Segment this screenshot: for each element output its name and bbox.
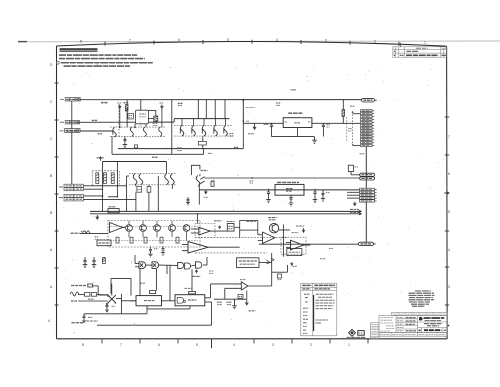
feed arrow small bbox=[291, 262, 294, 265]
note line 3 bbox=[57, 61, 60, 64]
P1 pin number ticks bbox=[372, 111, 374, 146]
zone letters right bbox=[448, 135, 450, 289]
label (INT) IN bbox=[71, 300, 77, 302]
ground arrow P2 bbox=[353, 202, 356, 206]
wire mixer up bbox=[111, 284, 113, 296]
wire J4b bbox=[84, 188, 103, 190]
wire (OUT) long bbox=[97, 324, 212, 326]
transistor Q12 bbox=[165, 174, 175, 185]
P1 pin texts bbox=[362, 111, 371, 146]
IC U6 PLL box bbox=[175, 295, 205, 306]
revision row B text bbox=[394, 54, 395, 56]
label Q9 2N3906 bbox=[230, 133, 234, 135]
wire top rail bbox=[80, 99, 362, 101]
label C34 bbox=[154, 248, 158, 250]
label VR1 LM340T-5 bbox=[288, 112, 303, 114]
crystal module B1 bbox=[227, 224, 234, 232]
dashed amplifier block bbox=[108, 221, 200, 248]
transistor row dashed bus lower bbox=[110, 135, 166, 137]
label +13.6V small bbox=[204, 196, 209, 198]
capacitor C32 with ground bbox=[83, 314, 86, 322]
label +13.6V below bbox=[249, 310, 256, 312]
capacitor C19 with ground bbox=[186, 197, 190, 205]
svg-text:5: 5 bbox=[448, 210, 450, 214]
transistor Q18 FET bbox=[269, 224, 290, 233]
wire loop drops bbox=[240, 230, 258, 238]
resistor R51 above U5 bbox=[150, 291, 156, 294]
wire J4 to bias bbox=[84, 185, 127, 187]
label VR2 LM320T bbox=[277, 181, 299, 183]
svg-text:2: 2 bbox=[374, 39, 376, 43]
gate U4a bbox=[178, 262, 184, 268]
wire R14 bbox=[342, 100, 344, 124]
label C18 bbox=[250, 180, 254, 182]
VR1 bottom wire bbox=[272, 136, 315, 138]
capacitor C31 bbox=[106, 304, 109, 312]
transistor Q9 bbox=[224, 125, 228, 136]
label R41 1K bbox=[226, 301, 232, 303]
svg-text:7: 7 bbox=[448, 135, 450, 139]
ground below C21 bbox=[92, 265, 97, 268]
label C10 .1 bbox=[264, 123, 269, 125]
U6 internal text bbox=[188, 299, 197, 301]
dashed arrow line near P1 bbox=[351, 111, 353, 145]
A3 out wire bbox=[304, 244, 311, 246]
label A6 bbox=[240, 279, 246, 281]
label R50 bbox=[81, 230, 85, 232]
gate U3a bbox=[139, 262, 146, 269]
label C33 220 bbox=[95, 236, 99, 238]
label 7R4 bbox=[123, 102, 128, 104]
wire drops into Q2-Q4 bbox=[127, 100, 156, 128]
label Q18 MPF102 bbox=[268, 217, 277, 219]
label +13.6V bottom bbox=[195, 270, 197, 273]
vertical trunk mid-bottom bbox=[271, 253, 273, 286]
capacitor C6 bbox=[123, 136, 126, 144]
wires U5-U6 bbox=[130, 265, 212, 325]
wire 119.8 drop bbox=[119, 108, 121, 127]
resistor R7 small box bbox=[134, 145, 137, 148]
gate wires bbox=[135, 255, 207, 274]
reference designator table bbox=[301, 283, 337, 336]
wire bottom of Q row bbox=[112, 153, 204, 155]
label 5.7K bbox=[201, 170, 208, 172]
IC U5 timer box bbox=[136, 296, 162, 306]
diamond inspection symbol bbox=[349, 329, 356, 336]
wire 161.9 drop bbox=[161, 108, 163, 127]
note line 4 bbox=[64, 65, 131, 67]
P2 left stubs bbox=[347, 192, 360, 198]
zone tick marks right edge bbox=[445, 117, 449, 305]
ground below bus bbox=[232, 299, 237, 309]
label at x246 bbox=[246, 120, 249, 122]
label C8 bbox=[153, 122, 158, 124]
resistor R30 bbox=[160, 237, 163, 243]
resistor R27 bbox=[116, 237, 119, 243]
oval net label mid B bbox=[360, 177, 375, 180]
junction node bbox=[102, 195, 104, 197]
label C2 bbox=[98, 133, 102, 135]
capacitor C28 box bbox=[277, 274, 281, 278]
wire into U5 bbox=[121, 300, 136, 302]
resistor R6 hatched bbox=[154, 116, 158, 121]
wire from J3 bbox=[80, 130, 113, 132]
module box B0 bbox=[97, 240, 111, 246]
capacitor C16 bbox=[313, 189, 316, 200]
connector J5 pair bbox=[64, 194, 84, 201]
label C32 bbox=[88, 316, 93, 318]
label C16b bbox=[326, 192, 330, 194]
wire riser bbox=[111, 136, 113, 154]
transistor Q10 bbox=[191, 165, 359, 204]
net label -13.6V rail bbox=[350, 211, 359, 213]
dashed base lines bank2 bbox=[174, 124, 232, 126]
wire to mixer bbox=[97, 294, 108, 296]
NOTES heading bbox=[60, 48, 98, 51]
ground below C16 bbox=[313, 200, 318, 203]
vertical trunk left bbox=[71, 132, 73, 184]
stray dot bbox=[448, 325, 450, 327]
transistor Q7 bbox=[202, 125, 206, 136]
op-amp A3 bbox=[291, 240, 304, 250]
connector P1 pin stack bbox=[361, 110, 373, 147]
resistor R24 box near ovals bbox=[348, 165, 353, 171]
revision table bbox=[393, 47, 447, 57]
svg-text:8: 8 bbox=[82, 343, 84, 347]
wire J5b bbox=[84, 198, 136, 200]
wire AM in bbox=[93, 286, 108, 295]
lower bias bus bbox=[214, 298, 246, 300]
wire A1 output run bbox=[210, 230, 227, 232]
wire from J2 bbox=[79, 121, 135, 123]
svg-text:4: 4 bbox=[233, 343, 235, 347]
wire drop bbox=[116, 162, 118, 198]
label R40 10K bbox=[217, 301, 223, 303]
label +13.6V small bbox=[292, 265, 297, 267]
filter cell C bbox=[128, 113, 134, 119]
note paragraph above title block bbox=[409, 291, 435, 306]
title block outer lines bbox=[371, 312, 448, 338]
wire A1 out bbox=[123, 227, 126, 229]
capacitor C11 bbox=[322, 123, 325, 136]
label TB tiny bbox=[360, 153, 365, 155]
comparator block box bbox=[287, 249, 302, 256]
size cell letter bbox=[419, 329, 421, 331]
wire stub to P1 row13 bbox=[353, 145, 361, 147]
dashed line inside block bbox=[110, 225, 198, 227]
op-amp A2b bbox=[263, 232, 275, 243]
drawing title text bbox=[424, 323, 442, 325]
VR1 output wire bbox=[312, 122, 361, 124]
ground below C6 bbox=[123, 145, 128, 148]
svg-text:7: 7 bbox=[129, 39, 131, 43]
label C11 bbox=[327, 124, 331, 126]
VR1 center pin bbox=[297, 128, 299, 137]
U5 internal text bbox=[144, 300, 155, 302]
delay module box bbox=[108, 209, 119, 213]
label R2 bbox=[92, 119, 97, 121]
resistor R47 box bbox=[91, 293, 96, 297]
wire drop to VR1 bbox=[243, 100, 283, 123]
resistor R17 bbox=[103, 173, 106, 184]
svg-text:4: 4 bbox=[448, 248, 450, 252]
label R20 bbox=[137, 189, 141, 191]
note line 1 bbox=[59, 54, 138, 56]
zone letters left bbox=[48, 63, 53, 323]
border frame bbox=[57, 41, 448, 338]
resistor R20 bbox=[137, 187, 142, 193]
ladder cell texts bbox=[372, 325, 379, 338]
svg-text:2: 2 bbox=[310, 343, 312, 347]
diode mixer CR1 X symbol bbox=[107, 295, 116, 305]
svg-text:6: 6 bbox=[178, 38, 180, 42]
tolerance cell texts bbox=[381, 317, 395, 331]
feed arrow right bbox=[161, 105, 164, 109]
op-amp A2 bbox=[199, 227, 210, 235]
wire mod in bbox=[80, 232, 108, 234]
label +13.6V above A1 bbox=[214, 220, 222, 222]
wire stubs bank2 bases bbox=[182, 119, 226, 126]
tick into revision table bbox=[400, 43, 402, 47]
sine source symbol bbox=[70, 292, 78, 296]
long double rail lower bbox=[90, 213, 362, 215]
capacitor C21 bbox=[92, 257, 95, 265]
note line 2 bbox=[59, 58, 145, 60]
long double rail upper bbox=[90, 210, 362, 212]
resistor R28 bbox=[130, 237, 133, 243]
note line 2 bbox=[59, 58, 145, 60]
transistor Q17 bbox=[183, 225, 190, 232]
arrow down from A6 out bbox=[245, 291, 248, 305]
transistor Q2 bbox=[130, 127, 133, 136]
resistor R46 box bbox=[85, 293, 90, 297]
wire stub to P1 row2 bbox=[353, 113, 361, 115]
transistor Q8 bbox=[214, 125, 218, 136]
zone numbers bottom bbox=[82, 343, 350, 347]
transistor pair Q11/Q12 dashed bus bbox=[129, 173, 176, 175]
svg-text:4: 4 bbox=[276, 38, 278, 42]
capacitor C34 with ground bbox=[148, 247, 152, 258]
regulator U2 box bbox=[275, 184, 304, 195]
svg-text:3: 3 bbox=[448, 285, 450, 289]
transistor Q4 bbox=[159, 127, 162, 136]
svg-text:3: 3 bbox=[272, 343, 274, 347]
transistor Q16 bbox=[169, 225, 176, 232]
capacitor C20 bbox=[83, 257, 86, 265]
zone numbers top bbox=[80, 38, 426, 45]
label (OUT) bbox=[71, 322, 84, 324]
op-amp A6 comparator bbox=[241, 282, 248, 290]
connector J1 input box bbox=[65, 98, 80, 101]
resistor R23 bbox=[211, 182, 214, 187]
oval net label mid A bbox=[360, 173, 375, 176]
connector J2 input box bbox=[65, 121, 79, 124]
sine source symbol bbox=[82, 231, 90, 234]
transistor Q11 bbox=[133, 174, 143, 185]
capacitor C10 bbox=[270, 123, 273, 136]
resistor R33 vertical bbox=[103, 258, 106, 264]
connector P2 pin stack bbox=[360, 188, 375, 202]
resistor R18 bbox=[111, 173, 114, 184]
resistor R29 bbox=[144, 237, 147, 243]
resistor R4 vertical bbox=[125, 105, 128, 111]
label J5 bbox=[59, 197, 63, 199]
label Q7 below bbox=[208, 152, 212, 154]
label J1 bbox=[60, 99, 64, 101]
capacitor C35 with ground bbox=[161, 246, 165, 255]
text under symbols bbox=[347, 336, 367, 338]
junction node on y178 bbox=[251, 177, 253, 179]
bias network dashed box bbox=[92, 171, 119, 186]
ground arrow near A3 bbox=[302, 228, 305, 232]
net label +13.6V rail bbox=[350, 208, 359, 210]
capacitor C16b bbox=[321, 190, 325, 202]
zone tick marks bottom edge bbox=[102, 339, 368, 344]
table rows right column bbox=[316, 294, 335, 323]
A6 wires bbox=[211, 284, 272, 299]
wire A2b in bbox=[258, 235, 263, 241]
bottom row texts bbox=[380, 334, 446, 336]
wire +13.6 feed bbox=[103, 161, 167, 163]
wires Q11/Q12 risers bbox=[109, 176, 172, 211]
op-amp A1 bbox=[110, 223, 123, 233]
net trunk below P1 bbox=[365, 147, 367, 189]
label delay bbox=[109, 206, 117, 208]
resistor R8 bbox=[198, 141, 206, 145]
resistor R31 bbox=[176, 237, 179, 243]
label F1 on rail bbox=[101, 102, 108, 104]
wires in block bbox=[129, 221, 187, 241]
label B1 bbox=[227, 221, 235, 223]
label (EXT) MOD bbox=[71, 232, 80, 234]
bank bus left drop bbox=[173, 119, 175, 123]
gate U4c bbox=[196, 262, 202, 268]
rev cell bbox=[444, 329, 446, 331]
ground below VR1 bbox=[312, 137, 317, 144]
NOTES heading bbox=[60, 48, 98, 51]
wire J5 bbox=[84, 195, 103, 197]
wire B3 to trunk bbox=[259, 261, 272, 263]
label below bbox=[152, 156, 158, 158]
gate U3b bbox=[152, 262, 159, 269]
dashed lines around A4 bbox=[195, 237, 288, 239]
A3 label +13.6V bbox=[296, 225, 304, 227]
P2 pin ticks bbox=[375, 189, 377, 201]
note line 3 bbox=[57, 61, 60, 64]
transistor Q14 bbox=[140, 225, 147, 232]
label +13.6V near A3 bbox=[292, 232, 299, 234]
company logo bbox=[419, 317, 423, 321]
table divider heavy bbox=[313, 295, 315, 331]
capacitor C15 bbox=[289, 195, 292, 203]
note line 4 bbox=[64, 65, 131, 67]
label +13.6V with arrow bbox=[99, 157, 101, 161]
table rows left column bbox=[303, 294, 310, 333]
label C26 bbox=[329, 247, 333, 249]
wire mixer out bbox=[116, 294, 122, 314]
label C9 bbox=[276, 102, 281, 104]
resistor R48 box bbox=[88, 284, 93, 287]
net trunk mid bbox=[365, 202, 367, 242]
resistor R21 bbox=[147, 187, 151, 193]
gate inside U6 bbox=[177, 297, 185, 303]
label +J tiny bbox=[350, 105, 355, 107]
oval net label top bbox=[362, 98, 375, 102]
label +8V tiny bbox=[291, 89, 297, 91]
center fold tick bottom bbox=[211, 339, 213, 348]
scan paper edge line bbox=[18, 40, 500, 43]
feedback loop rectangle bbox=[240, 221, 258, 231]
vertical bus joining J1-J3 bbox=[71, 101, 73, 129]
A2 dashed box bbox=[195, 224, 215, 238]
drawing number bbox=[424, 329, 442, 331]
label C31 bbox=[112, 305, 116, 307]
ground below C15 bbox=[289, 203, 294, 206]
oval net label out bbox=[359, 242, 374, 245]
svg-text:5: 5 bbox=[196, 343, 198, 347]
junction on rail bbox=[242, 99, 244, 101]
faint label 1N4001 bbox=[246, 106, 255, 108]
svg-text:1: 1 bbox=[424, 40, 426, 44]
label near A5 bbox=[320, 258, 326, 260]
bank collector drops bbox=[198, 100, 225, 119]
A3 input wires bbox=[286, 243, 291, 248]
emitter junction wire bbox=[202, 136, 204, 141]
ground stub left of VR1 bbox=[253, 123, 256, 129]
module box B3 bbox=[237, 258, 259, 268]
label J3 bbox=[59, 130, 63, 132]
transistor Q1 differential pair bbox=[113, 127, 116, 137]
ground arrow A1 bbox=[218, 225, 221, 228]
wire loop to B1 bbox=[234, 226, 240, 228]
label +13.6V left bbox=[117, 102, 121, 104]
svg-text:6: 6 bbox=[448, 172, 450, 176]
wire lower rail bank2 bbox=[118, 148, 243, 150]
resistor R52 box bbox=[189, 291, 196, 294]
wire low bus bbox=[84, 313, 147, 315]
dashed line C39 bbox=[346, 117, 348, 142]
transistor Q13 bbox=[126, 225, 133, 232]
label 2.2K bbox=[211, 179, 215, 181]
label R10 bbox=[177, 147, 182, 149]
signature cell texts bbox=[397, 317, 416, 330]
wire drop right end bbox=[165, 162, 167, 174]
svg-text:6: 6 bbox=[158, 343, 160, 347]
transistor Q6 bbox=[192, 125, 196, 136]
scan speckle noise bbox=[59, 52, 446, 338]
mid rail2 bbox=[199, 189, 359, 191]
note line 1 bbox=[59, 54, 138, 56]
label C39 bbox=[348, 128, 351, 130]
wire right edge riser bbox=[171, 100, 173, 155]
label J2 bbox=[60, 121, 64, 123]
label R49 bbox=[88, 298, 94, 300]
transistor Q3 bbox=[143, 127, 146, 136]
resistor R43 box bbox=[238, 295, 243, 299]
wire sine to mixer bbox=[78, 294, 85, 296]
arrow marks bbox=[266, 258, 274, 264]
title block top row texts bbox=[393, 313, 446, 315]
label R52 above U6 bbox=[184, 287, 191, 289]
connector J3 input box bbox=[65, 129, 80, 133]
transistor Q15 bbox=[154, 225, 161, 232]
label J4 bbox=[59, 186, 63, 188]
filter module L5 box bbox=[136, 110, 149, 124]
transistor Q5 bbox=[180, 125, 184, 136]
A4 wires bbox=[182, 244, 240, 250]
label near gates bbox=[183, 250, 189, 252]
zone tick marks top edge bbox=[105, 40, 399, 46]
